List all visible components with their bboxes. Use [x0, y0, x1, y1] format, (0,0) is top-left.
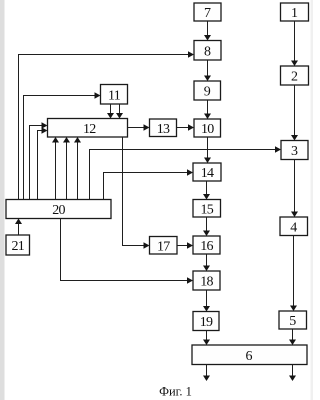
scan band left edge — [0, 0, 5, 400]
block 20 — [6, 200, 111, 219]
wire 2-3 — [291, 85, 298, 141]
wire 12-13 — [128, 124, 150, 130]
scan band right edge — [311, 0, 314, 400]
svg-text:7: 7 — [204, 6, 211, 21]
wire 20-12 bottom input a — [52, 137, 59, 200]
wire 10-14 — [204, 137, 211, 163]
wire 20-11 — [24, 92, 101, 199]
svg-text:5: 5 — [289, 314, 296, 329]
wire 14-15 — [203, 181, 210, 200]
wire output left of 6 — [203, 365, 210, 382]
wire 11-12 right — [116, 104, 123, 119]
wire 20-18 — [61, 219, 194, 284]
svg-text:6: 6 — [246, 349, 253, 364]
wire 21-20 — [15, 219, 22, 236]
wire 20-12 bottom input b — [63, 137, 70, 200]
caption — [159, 385, 192, 399]
wire output right of 6 — [289, 365, 296, 382]
svg-text:1: 1 — [291, 6, 298, 21]
wire 20-12 lower left input — [38, 127, 48, 199]
block 10 — [194, 119, 221, 137]
svg-text:3: 3 — [291, 144, 298, 159]
svg-text:19: 19 — [200, 315, 213, 330]
wire 20-8 — [19, 51, 195, 199]
svg-text:9: 9 — [204, 85, 211, 100]
block 7 — [194, 3, 221, 21]
wire 20-12 bottom input c — [74, 137, 81, 200]
svg-text:14: 14 — [201, 166, 214, 181]
svg-text:11: 11 — [108, 88, 121, 103]
wire 9-10 — [204, 100, 211, 119]
svg-text:15: 15 — [200, 202, 213, 217]
wire 13-10 — [177, 124, 195, 130]
block 14 — [193, 163, 221, 181]
block 21 — [6, 235, 30, 255]
wire 20-12 upper left input — [30, 122, 48, 199]
svg-text:2: 2 — [291, 70, 298, 85]
block 5 — [279, 311, 307, 329]
svg-text:8: 8 — [204, 44, 211, 59]
block 8 — [194, 41, 221, 61]
wire 4-5 — [290, 236, 297, 312]
svg-text:21: 21 — [11, 239, 24, 254]
svg-text:4: 4 — [290, 220, 297, 235]
block 19 — [193, 312, 219, 331]
block 4 — [280, 217, 308, 236]
block 17 — [150, 237, 178, 255]
block 13 — [150, 119, 177, 137]
block 15 — [193, 200, 221, 218]
block 6 — [192, 345, 307, 365]
wire 19-6 — [203, 331, 210, 346]
block 9 — [194, 81, 221, 100]
svg-text:Фиг. 1: Фиг. 1 — [159, 385, 192, 399]
svg-text:16: 16 — [200, 239, 213, 254]
block 1 — [281, 3, 309, 21]
wire 5-6 — [289, 329, 296, 345]
wire 17-16 — [177, 242, 193, 248]
svg-text:10: 10 — [201, 122, 214, 137]
wire 1-2 — [291, 21, 298, 66]
block 16 — [193, 236, 220, 254]
wire 20-3 — [90, 146, 282, 199]
wire 18-19 — [203, 290, 210, 312]
wire 3-4 — [291, 160, 298, 218]
block 12 — [48, 119, 128, 138]
block 11 — [101, 85, 128, 105]
wire 15-16 — [203, 217, 210, 236]
wire 11-12 left — [107, 104, 114, 119]
wire 20-14 — [104, 169, 194, 199]
wire 7-8 — [204, 21, 211, 41]
wire 12-17 — [123, 137, 150, 249]
svg-text:12: 12 — [83, 122, 96, 137]
svg-text:20: 20 — [52, 203, 65, 218]
block 2 — [281, 66, 309, 85]
wire 8-9 — [204, 60, 211, 81]
svg-text:17: 17 — [157, 239, 170, 254]
block 18 — [193, 271, 220, 290]
block 3 — [281, 141, 308, 160]
svg-text:18: 18 — [200, 275, 213, 290]
svg-text:13: 13 — [157, 122, 170, 137]
wire 16-18 — [203, 254, 210, 271]
